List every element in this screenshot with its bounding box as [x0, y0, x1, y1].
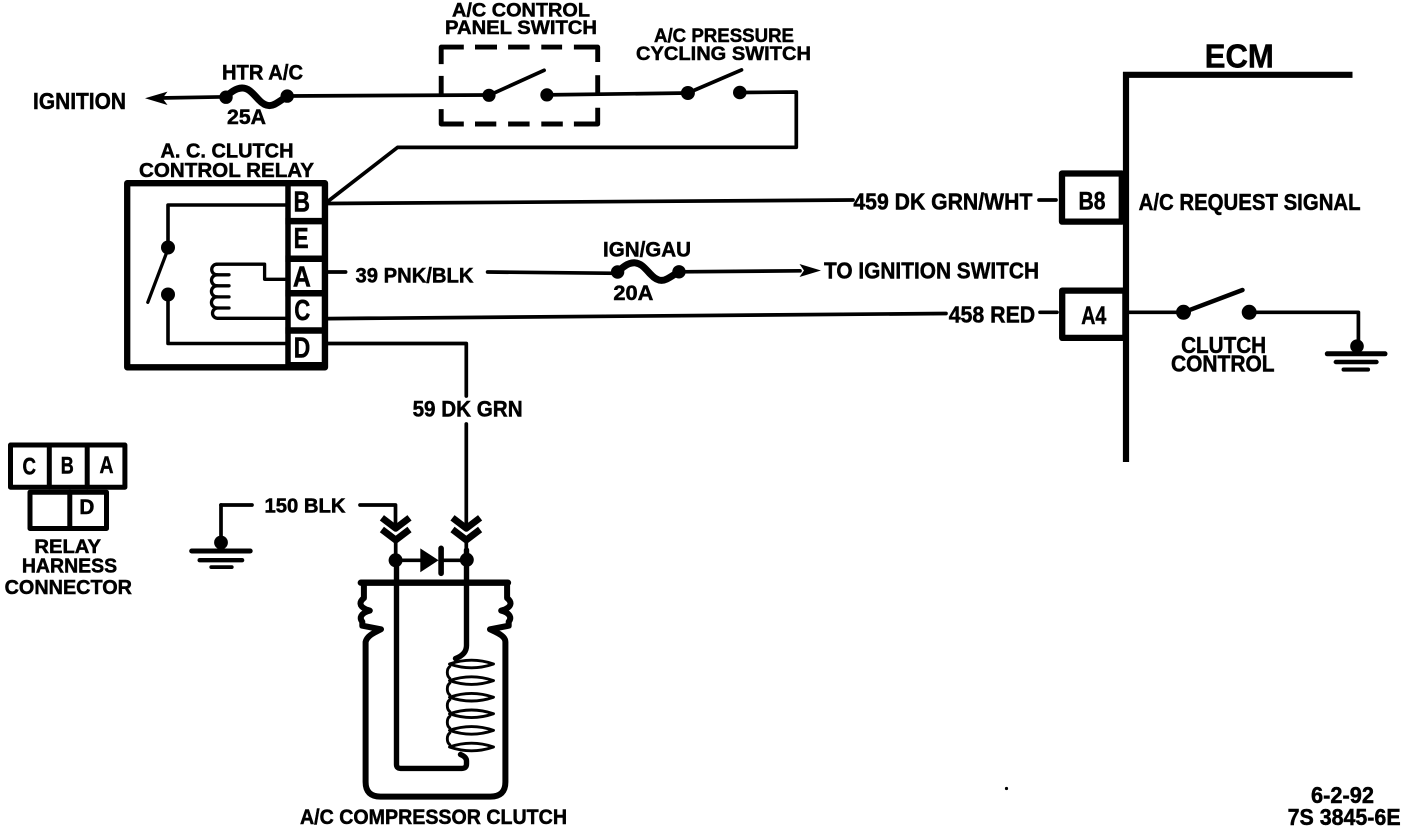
- wire tick at terminal A: [328, 270, 346, 274]
- junction dot right: [460, 553, 474, 567]
- relay terminal divider E/A: [285, 256, 327, 263]
- svg-text:C: C: [294, 295, 310, 327]
- wire B internal: [168, 205, 288, 241]
- connector chevrons left: [382, 518, 410, 540]
- svg-text:B8: B8: [1079, 188, 1106, 215]
- connector chevrons right: [453, 518, 481, 540]
- junction dot left: [389, 553, 403, 567]
- ECM vertical line: [1123, 72, 1129, 462]
- wire fuse to panel switch: [288, 95, 489, 96]
- ground ECM clutch control: [1327, 339, 1385, 369]
- relay harness connector top row: [11, 445, 125, 487]
- svg-text:A/C REQUEST SIGNAL: A/C REQUEST SIGNAL: [1139, 189, 1361, 215]
- svg-text:D: D: [294, 333, 311, 365]
- svg-text:39 PNK/BLK: 39 PNK/BLK: [356, 264, 474, 288]
- svg-text:59 DK GRN: 59 DK GRN: [413, 397, 523, 422]
- svg-text:IGNITION: IGNITION: [33, 88, 126, 114]
- wire 150 BLK to connector: [360, 505, 396, 524]
- svg-text:A: A: [100, 452, 114, 479]
- svg-text:D: D: [79, 495, 94, 519]
- relay switch contact bottom: [161, 288, 175, 302]
- relay A.C. clutch control relay box: [127, 183, 325, 367]
- svg-text:B: B: [293, 187, 310, 219]
- wire chevron left to junction: [394, 540, 398, 554]
- wire 59 DK GRN below label: [464, 424, 468, 524]
- svg-text:HARNESS: HARNESS: [22, 554, 117, 577]
- relay coil: [211, 264, 288, 318]
- relay terminal divider A/C: [285, 290, 327, 297]
- svg-text:7S 3845-6E: 7S 3845-6E: [1288, 804, 1401, 828]
- A/C control panel switch dashed box: [441, 47, 598, 124]
- wire ground elbow: [221, 503, 252, 507]
- ground 150 BLK: [192, 505, 251, 567]
- relay harness connector bottom row: [30, 492, 107, 528]
- svg-text:A/C COMPRESSOR CLUTCH: A/C COMPRESSOR CLUTCH: [300, 806, 567, 828]
- switch clutch control: [1176, 290, 1257, 320]
- svg-text:CYCLING SWITCH: CYCLING SWITCH: [636, 43, 811, 65]
- node IGNITION arrow: [145, 92, 168, 105]
- wire fuse to ignition switch arrow: [679, 271, 800, 272]
- fuse IGN/GAU 20A: [611, 263, 686, 281]
- wire 459 DK GRN/WHT to ECM B8: [328, 200, 853, 204]
- compressor clutch jar top bar: [361, 580, 508, 586]
- wire contact to D internal: [168, 298, 288, 344]
- wire pressure switch to relay terminal B: [329, 92, 796, 201]
- svg-text:A4: A4: [1081, 303, 1106, 330]
- wire A4 to clutch control switch: [1129, 310, 1178, 314]
- wire coil entry: [456, 550, 467, 659]
- svg-text:E: E: [294, 223, 309, 255]
- svg-text:HTR A/C: HTR A/C: [222, 61, 303, 85]
- wire dash before B8: [1039, 198, 1056, 202]
- pin A4 box: [1062, 291, 1125, 338]
- svg-text:ECM: ECM: [1205, 38, 1274, 75]
- compressor clutch jar outline: [360, 585, 510, 797]
- svg-text:CONTROL RELAY: CONTROL RELAY: [139, 159, 314, 182]
- wire 458 RED to ECM A4: [328, 314, 946, 319]
- relay terminal divider B/E: [285, 218, 327, 225]
- svg-text:CONTROL: CONTROL: [1171, 351, 1275, 377]
- svg-text:20A: 20A: [613, 282, 653, 305]
- diode across clutch coil: [396, 548, 467, 573]
- switch A/C pressure cycling: [681, 70, 747, 100]
- svg-text:A: A: [293, 261, 311, 293]
- svg-text:PANEL SWITCH: PANEL SWITCH: [445, 17, 597, 39]
- wire 39 PNK/BLK to fuse IGN/GAU: [488, 272, 618, 273]
- switch A/C control panel: [482, 70, 553, 102]
- svg-text:C: C: [22, 453, 36, 480]
- pin B8 box: [1062, 174, 1122, 222]
- wire chevron right to junction: [464, 540, 468, 554]
- relay terminal column: [288, 183, 325, 365]
- svg-text:B: B: [61, 453, 74, 480]
- svg-text:25A: 25A: [227, 106, 266, 129]
- wire inner U inside clutch: [397, 563, 467, 768]
- relay switch blade: [148, 249, 168, 302]
- fuse HTR A/C 25A: [219, 88, 294, 106]
- wire ignition to fuse: [160, 97, 228, 98]
- relay terminal divider C/D: [285, 327, 327, 334]
- stray dot: [1005, 787, 1008, 790]
- node arrow to ignition switch: [800, 264, 822, 277]
- svg-text:150 BLK: 150 BLK: [265, 496, 347, 518]
- svg-text:458 RED: 458 RED: [949, 301, 1035, 327]
- wire switch to ground: [1249, 312, 1358, 341]
- svg-text:CONNECTOR: CONNECTOR: [5, 576, 133, 599]
- svg-text:IGN/GAU: IGN/GAU: [603, 239, 691, 262]
- wire 59 DK GRN from terminal D: [328, 344, 466, 397]
- wire dash before A4: [1040, 310, 1057, 314]
- svg-text:TO IGNITION SWITCH: TO IGNITION SWITCH: [824, 257, 1039, 283]
- ECM top line: [1123, 72, 1353, 78]
- svg-text:459 DK GRN/WHT: 459 DK GRN/WHT: [853, 189, 1032, 215]
- wire panel switch to pressure switch: [547, 93, 688, 95]
- coil A/C compressor clutch: [447, 660, 493, 751]
- relay switch contact top: [161, 241, 175, 255]
